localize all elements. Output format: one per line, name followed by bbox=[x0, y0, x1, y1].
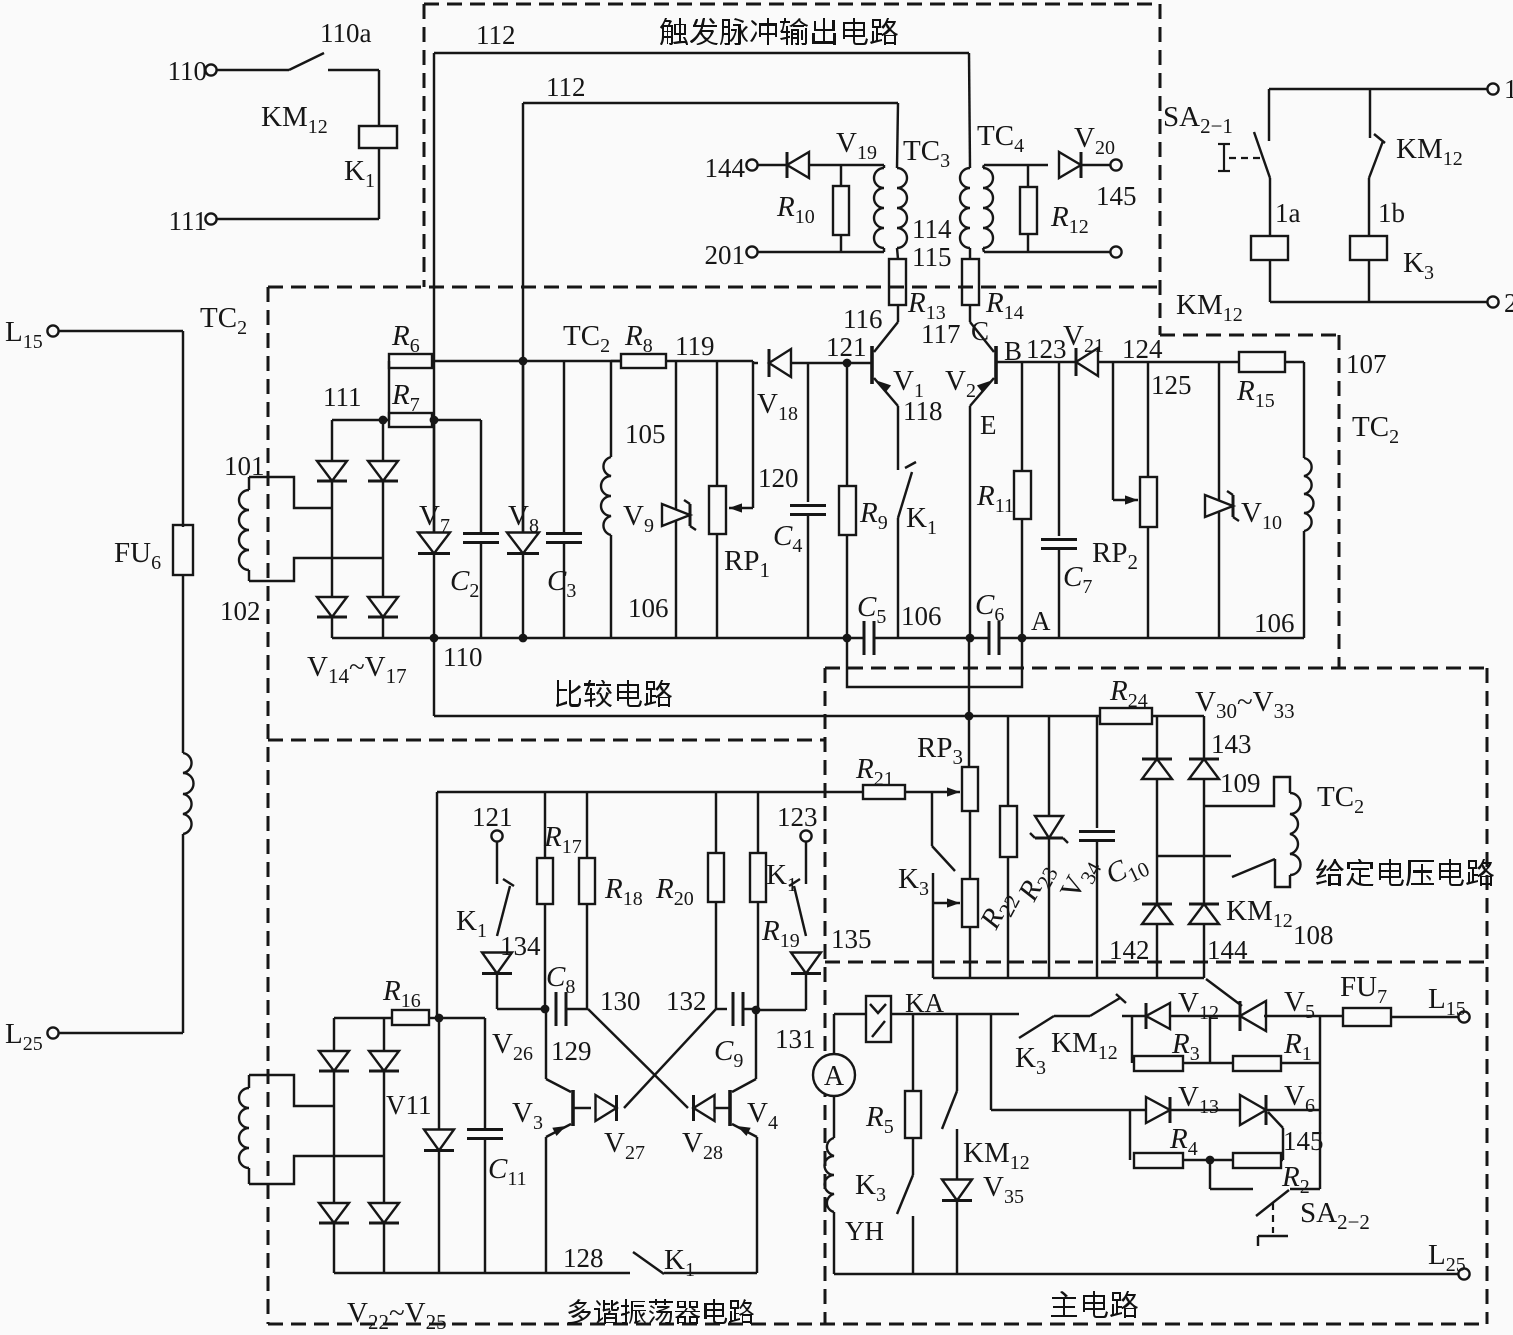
switch K1 below V1 emitter bbox=[897, 406, 899, 470]
wire down to second rail bbox=[990, 1014, 992, 1110]
resistor R18 bbox=[586, 792, 588, 858]
svg-text:116: 116 bbox=[843, 304, 883, 334]
SA2-1 manual link bbox=[1223, 144, 1225, 171]
wire to terminal 111 bbox=[217, 218, 379, 220]
multivibrator caption bbox=[568, 1299, 754, 1324]
terminal 111 bbox=[205, 213, 216, 224]
trigger-pulse output circuit dashed box bbox=[424, 3, 1160, 6]
rectifier bridge V30-V33 right column bbox=[1203, 716, 1205, 758]
svg-text:106: 106 bbox=[1254, 608, 1295, 638]
svg-text:1b: 1b bbox=[1378, 198, 1405, 228]
svg-text:108: 108 bbox=[1293, 920, 1334, 950]
multivibrator top rail bbox=[436, 792, 438, 1018]
svg-text:119: 119 bbox=[675, 331, 715, 361]
transformer TC2 primary winding bbox=[183, 753, 194, 834]
switch SA2-1 bbox=[1268, 89, 1270, 141]
svg-text:117: 117 bbox=[921, 319, 961, 349]
main circuit caption bbox=[1051, 1291, 1138, 1318]
resistor R17 bbox=[544, 792, 546, 858]
switch KM12 branch with V35 bbox=[956, 1014, 958, 1091]
multivibrator box dashed top bbox=[268, 739, 825, 742]
resistor R4 parallel V13 bbox=[1129, 1110, 1131, 1160]
switch SA2-2 bbox=[1209, 1160, 1211, 1189]
svg-text:118: 118 bbox=[903, 396, 943, 426]
resistor R5 branch bbox=[912, 1014, 914, 1091]
svg-text:112: 112 bbox=[546, 72, 586, 102]
cross-coupling wire R20 to V3 base diode bbox=[624, 1009, 716, 1108]
svg-text:121: 121 bbox=[472, 802, 513, 832]
node R16 dot bbox=[435, 1014, 444, 1023]
switch KM12 contact 110a bbox=[217, 69, 289, 71]
diode V21 bbox=[1076, 348, 1098, 376]
given-voltage bus bbox=[933, 977, 1204, 979]
voltage transformer YH winding bbox=[833, 1096, 835, 1138]
wire V2 base to node 123 bbox=[996, 361, 1076, 363]
wire R7 to C2 branch bbox=[432, 419, 481, 421]
transformer TC4 primary winding bbox=[969, 53, 970, 168]
dashed border between given-voltage and main circuit bbox=[825, 961, 1487, 964]
svg-text:144: 144 bbox=[1207, 935, 1248, 965]
svg-text:201: 201 bbox=[705, 240, 746, 270]
thyristor V5 bbox=[1240, 1001, 1266, 1031]
svg-text:130: 130 bbox=[600, 986, 641, 1016]
comparison circuit caption bbox=[556, 680, 672, 707]
resistor R7 bbox=[389, 413, 432, 427]
diode V27 bbox=[573, 1107, 591, 1109]
given-voltage circuit caption bbox=[1316, 859, 1494, 886]
lower winding to bridge stubs bbox=[249, 1075, 334, 1106]
svg-text:106: 106 bbox=[901, 601, 942, 631]
svg-text:2: 2 bbox=[1504, 288, 1513, 318]
svg-text:111: 111 bbox=[169, 206, 208, 236]
diode V12 bbox=[1146, 1003, 1170, 1029]
wire R6 to C3 branch bbox=[432, 360, 564, 362]
relay circuit top rail bbox=[1269, 88, 1487, 90]
wire TC4 secondary lower to terminal bbox=[984, 251, 1110, 253]
capacitor C5 in series bbox=[863, 621, 866, 655]
terminal L15 bbox=[47, 325, 58, 336]
resistor R8 bbox=[621, 354, 666, 368]
svg-text:121: 121 bbox=[826, 332, 867, 362]
resistor R20 bbox=[715, 792, 717, 853]
wire 112 to node 110 vertical bbox=[433, 53, 435, 533]
node 121 dot bbox=[843, 359, 852, 368]
relay coil 1b bbox=[1368, 178, 1370, 236]
bypass wire C5-C6 bbox=[847, 638, 1022, 687]
main circuit second rail bbox=[991, 1109, 1147, 1111]
resistor R14 bbox=[962, 259, 979, 305]
svg-text:102: 102 bbox=[220, 596, 261, 626]
bottom dashed border bbox=[268, 1323, 1487, 1326]
capacitor C3 bbox=[563, 361, 565, 533]
wire to TC2 primary winding bbox=[182, 575, 184, 753]
cross-coupling wire C8 to V4 base bbox=[588, 1009, 688, 1108]
capacitor C9 coupling bbox=[716, 1008, 727, 1010]
transistor V4 bbox=[728, 1090, 732, 1126]
resistor R15 bbox=[1239, 352, 1285, 372]
diode V8 bbox=[522, 361, 524, 533]
resistor R3 parallel V12 bbox=[1131, 1016, 1133, 1063]
given-voltage circuit dashed box top bbox=[825, 667, 1487, 670]
TC2 secondary winding upper bbox=[248, 477, 250, 490]
svg-text:128: 128 bbox=[563, 1243, 604, 1273]
node 111 wire bbox=[332, 419, 389, 421]
svg-text:120: 120 bbox=[758, 463, 799, 493]
svg-text:131: 131 bbox=[775, 1024, 816, 1054]
svg-text:109: 109 bbox=[1220, 768, 1261, 798]
left dashed border of comparison+multivibrator boxes bbox=[267, 287, 270, 1324]
bottom bus 106 of comparison circuit bbox=[332, 637, 864, 639]
resistor R10 bbox=[840, 165, 842, 186]
terminal 2 bbox=[1487, 296, 1498, 307]
fuse FU7 bbox=[1343, 1008, 1391, 1026]
diode V20 bbox=[984, 164, 1048, 166]
current relay KA bbox=[834, 1013, 866, 1015]
terminal L15 right bbox=[1458, 1011, 1469, 1022]
svg-text:110a: 110a bbox=[320, 18, 371, 48]
svg-text:111: 111 bbox=[323, 382, 362, 412]
switch K3 in given-voltage circuit bbox=[931, 792, 933, 846]
diode V7 bbox=[433, 420, 435, 533]
rectifier bridge V14-V17 left column bbox=[331, 420, 333, 460]
capacitor C8 coupling bbox=[555, 992, 558, 1026]
node 112 wire upper bbox=[434, 52, 969, 54]
terminal L25 bbox=[47, 1027, 58, 1038]
junction dots multivibrator bbox=[541, 1005, 550, 1014]
rectifier bridge V30-V33 left column bbox=[1156, 716, 1158, 758]
resistor R13 bbox=[889, 259, 906, 305]
svg-text:143: 143 bbox=[1211, 729, 1252, 759]
resistor R16 bbox=[334, 1017, 392, 1019]
switch K3 on top rail bbox=[1019, 1016, 1054, 1038]
node 110 wire down bbox=[433, 638, 435, 716]
trigger pulse output circuit caption bbox=[660, 18, 898, 45]
diode V13 bbox=[1146, 1097, 1170, 1123]
RP2 wiper branch bbox=[1112, 362, 1114, 500]
diode V18 bbox=[753, 362, 758, 364]
svg-text:123: 123 bbox=[1026, 334, 1067, 364]
right dashed border bbox=[1486, 668, 1489, 1324]
resistor R24 bbox=[1100, 708, 1152, 724]
resistor R6 bbox=[389, 354, 432, 368]
RP3 wiper arrow bbox=[905, 791, 932, 793]
capacitor C10 bbox=[1096, 716, 1098, 828]
svg-text:135: 135 bbox=[831, 924, 872, 954]
multivibrator bottom rail with switch K1 128 bbox=[334, 1272, 630, 1274]
svg-text:145: 145 bbox=[1283, 1126, 1324, 1156]
svg-text:1: 1 bbox=[1504, 74, 1513, 104]
svg-text:142: 142 bbox=[1109, 935, 1150, 965]
capacitor C11 branch bbox=[439, 1017, 485, 1019]
svg-text:A: A bbox=[1031, 606, 1051, 636]
transformer TC4 secondary winding bbox=[983, 165, 984, 168]
svg-text:110: 110 bbox=[443, 642, 483, 672]
resistor R2 bbox=[1233, 1153, 1281, 1168]
svg-text:105: 105 bbox=[625, 419, 666, 449]
wire V20 to terminal 145 bbox=[1081, 164, 1110, 166]
terminal 145 upper bbox=[1110, 159, 1121, 170]
comparison circuit dashed border right step bbox=[1160, 334, 1339, 337]
node 110 long feedback wire to R24 bbox=[434, 715, 1100, 717]
rectifier bridge V22-V25 left column bbox=[333, 1018, 335, 1050]
svg-text:112: 112 bbox=[476, 20, 516, 50]
diode V19 bbox=[758, 164, 787, 166]
svg-text:115: 115 bbox=[912, 242, 952, 272]
terminal TC4 secondary lower bbox=[1110, 246, 1121, 257]
transistor V1 bbox=[870, 346, 874, 384]
resistor R21 bbox=[437, 791, 863, 793]
diode V11 branch bbox=[438, 1018, 440, 1129]
switch KM12 NC on top rail bbox=[1054, 1015, 1090, 1017]
rectifier bridge V22-V25 right column bbox=[383, 1018, 385, 1050]
zener diode V9 bbox=[675, 361, 677, 638]
svg-text:125: 125 bbox=[1151, 370, 1192, 400]
resistor R19 bbox=[757, 792, 759, 853]
terminal 110 bbox=[205, 64, 216, 75]
terminal 201 bbox=[746, 246, 757, 257]
zener diode V10 bbox=[1218, 362, 1220, 638]
TC2 winding in given-voltage circuit bbox=[1204, 777, 1290, 806]
svg-text:106: 106 bbox=[628, 593, 669, 623]
switch K3 in main circuit bbox=[912, 1138, 914, 1175]
capacitor C7 bbox=[1058, 362, 1060, 536]
node 145 dot bbox=[1206, 1156, 1215, 1165]
potentiometer RP2 bbox=[1147, 362, 1149, 477]
resistor R1 parallel V5 bbox=[1209, 1016, 1211, 1063]
thyristor V6 bbox=[1240, 1095, 1266, 1125]
diode V35 bbox=[942, 1180, 972, 1201]
resistor R23 bbox=[1007, 716, 1009, 806]
transistor V2 bbox=[994, 346, 998, 384]
relay coil K1 bbox=[378, 70, 380, 126]
zener diode V34 bbox=[1048, 716, 1050, 816]
svg-text:129: 129 bbox=[551, 1036, 592, 1066]
capacitor C4 bbox=[807, 363, 809, 502]
wire V2 emitter down bbox=[969, 406, 971, 638]
svg-text:144: 144 bbox=[705, 153, 746, 183]
svg-text:C: C bbox=[971, 316, 989, 346]
svg-text:E: E bbox=[980, 410, 997, 440]
dashed border between multivibrator and main circuit bbox=[824, 668, 827, 1324]
bus junction dots bbox=[430, 634, 439, 643]
relay circuit bottom rail bbox=[1270, 301, 1487, 303]
wire to terminal L25 bbox=[182, 834, 184, 1033]
wire to terminal L15 right bbox=[1391, 1016, 1458, 1018]
right tie vertical bbox=[1319, 1016, 1321, 1189]
switch KM12 aux contact bbox=[1369, 89, 1371, 138]
rectifier bridge V14-V17 right column bbox=[382, 420, 384, 460]
terminal L25 main bbox=[1458, 1268, 1469, 1279]
svg-text:145: 145 bbox=[1096, 181, 1137, 211]
diode V28 bbox=[694, 1095, 715, 1121]
wire 112 vertical to comparison circuit bbox=[522, 103, 524, 533]
TC2 winding right of comparison circuit bbox=[1303, 362, 1305, 458]
capacitor C6 in series bbox=[988, 621, 991, 655]
wire KA to branches bbox=[891, 1013, 1019, 1015]
svg-text:123: 123 bbox=[777, 802, 818, 832]
wire V19 to TC3 bbox=[809, 164, 884, 166]
svg-text:107: 107 bbox=[1346, 349, 1387, 379]
TC2 secondary winding lower bbox=[248, 1075, 250, 1088]
terminal 1 bbox=[1487, 83, 1498, 94]
wire node A down to RP3 bbox=[968, 638, 970, 767]
transistor V3 bbox=[571, 1090, 575, 1126]
ammeter A bbox=[833, 1014, 835, 1054]
transformer TC3 primary winding bbox=[897, 103, 898, 168]
svg-text:124: 124 bbox=[1122, 334, 1163, 364]
relay coil 1a bbox=[1269, 178, 1271, 236]
main circuit bottom rail bbox=[834, 1273, 1458, 1275]
resistor R12 bbox=[1027, 165, 1029, 187]
transformer TC3 secondary winding bbox=[883, 165, 885, 168]
resistor R9 bbox=[846, 363, 848, 486]
svg-text:A: A bbox=[824, 1061, 845, 1092]
potentiometer R22 with wiper bbox=[962, 879, 978, 927]
svg-text:110: 110 bbox=[168, 56, 208, 86]
RP1 wiper arrow bbox=[752, 361, 754, 508]
svg-text:V11: V11 bbox=[386, 1090, 432, 1120]
resistor R11 bbox=[1021, 362, 1023, 471]
winding 105 branch bbox=[610, 361, 612, 457]
wire 201 to TC3 bbox=[758, 251, 884, 253]
svg-text:B: B bbox=[1004, 336, 1022, 366]
svg-text:YH: YH bbox=[845, 1216, 884, 1246]
svg-text:1a: 1a bbox=[1275, 198, 1301, 228]
capacitor C2 bbox=[480, 420, 482, 533]
fuse FU6 bbox=[173, 525, 193, 575]
svg-text:114: 114 bbox=[912, 214, 952, 244]
potentiometer RP3 bbox=[962, 767, 978, 811]
terminal 144 bbox=[746, 159, 757, 170]
wire R8 right to RP1 wiper branch bbox=[666, 360, 753, 362]
junction dots R6/R7 rails bbox=[519, 357, 528, 366]
winding to bridge stubs bbox=[249, 477, 332, 508]
svg-text:132: 132 bbox=[666, 986, 707, 1016]
svg-text:134: 134 bbox=[500, 931, 541, 961]
node 112 wire lower bbox=[523, 102, 898, 104]
switch KM12 in given-voltage circuit bbox=[1157, 855, 1231, 857]
wire from L15 bbox=[59, 330, 183, 332]
